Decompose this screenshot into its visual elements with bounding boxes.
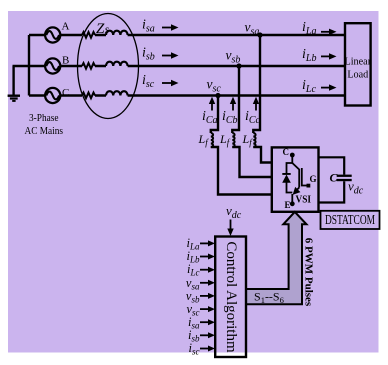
diode D1 [282,173,290,175]
arrow iCc [255,103,257,111]
source VA [45,27,60,42]
node vsb [236,63,241,68]
VSI box [272,147,319,211]
ground [8,95,20,102]
svg-text:6 PWM Pulses: 6 PWM Pulses [303,238,315,307]
diode branch [287,163,293,193]
arrow iLa [321,31,330,33]
arrow isb [162,55,172,57]
wire: phase B left stub [13,65,46,67]
arrow vdc [230,220,232,230]
inductor Lf-b [232,133,234,147]
node vsa [257,32,262,37]
svg-text:DSTATCOM: DSTATCOM [325,213,375,228]
wire: dc bus bottom [319,181,345,202]
wire: drop from node vsc [211,96,272,195]
resistor Rsa [82,32,95,38]
resistor Rsc [82,93,95,99]
collector dot [290,153,295,158]
wire: ground branch [12,66,14,95]
arrow in 3 [200,269,209,271]
inductor Lsc [106,91,128,95]
svg-text:S1--S6: S1--S6 [254,290,284,305]
svg-text:Control Algorithm: Control Algorithm [223,241,239,353]
capacitor C [337,175,352,177]
svg-text:AC Mains: AC Mains [25,125,64,137]
svg-text:E: E [285,200,291,210]
arrow isa [162,27,172,29]
arrow in 8 [200,334,209,336]
node vsc [215,93,220,98]
wire: drop from node vsb [232,66,271,177]
wire: phase A row [29,34,345,36]
input labels and arrows [186,236,200,357]
arrow in 1 [200,242,209,244]
svg-text:C: C [62,87,69,99]
inductor Lsb [106,62,128,66]
IGBT channel [292,163,299,188]
wire collector [291,155,293,163]
inductor Lf-c [211,133,213,147]
source VC [45,88,60,103]
arrow in 9 [200,348,209,350]
emitter dot [290,201,295,206]
arrow iLc [321,87,330,89]
source VB [45,58,60,73]
control algorithm box [215,237,246,358]
inductor Lsa [106,31,128,35]
svg-text:Z: Z [96,21,105,37]
wire: left vertical bus [28,35,30,96]
Linear Load box [345,23,371,105]
wire: phase C row [29,94,345,96]
gate lead [302,168,307,186]
DSTATCOM box [321,211,380,229]
svg-text:VSI: VSI [296,195,312,206]
arrow in 4 [200,282,209,284]
arrow iCa [211,103,213,111]
inductor Lf-a [253,133,255,147]
arrow in 5 [200,295,209,297]
svg-text:G: G [310,174,317,184]
arrow isc [162,82,172,84]
arrow iCb [232,103,234,111]
resistor Rsb [82,63,95,69]
svg-text:C: C [330,170,339,184]
svg-text:A: A [62,21,70,33]
svg-text:3-Phase: 3-Phase [29,112,59,124]
svg-text:B: B [62,55,69,67]
PWM block arrow [246,212,306,304]
wire: dc bus top [319,157,345,174]
svg-text:Load: Load [347,69,368,80]
svg-text:Linear: Linear [345,57,372,68]
arrow in 7 [200,321,209,323]
impedance ellipse Zs [78,14,139,119]
arrow in 2 [200,256,209,258]
svg-text:C: C [283,147,290,157]
arrow in 6 [200,308,209,310]
wire: phase B row [60,65,345,67]
arrow iLb [321,55,330,57]
wire: drop from node vsa [253,35,271,163]
